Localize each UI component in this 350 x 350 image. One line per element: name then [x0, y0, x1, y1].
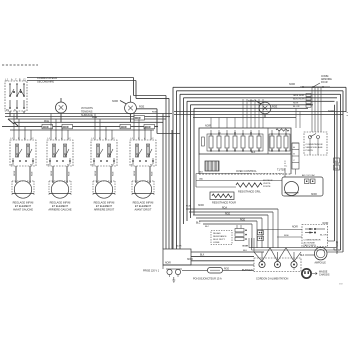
svg-text:RGE: RGE [44, 121, 49, 123]
svg-text:CORDON D ALIMENTATION: CORDON D ALIMENTATION [256, 278, 288, 281]
svg-text:NOIR: NOIR [176, 246, 182, 248]
svg-text:ET ELEMENT: ET ELEMENT [96, 204, 113, 208]
svg-text:NOIR: NOIR [165, 263, 171, 265]
svg-text:GRIS NOIR: GRIS NOIR [293, 95, 305, 97]
svg-text:OVEN CONTROL: OVEN CONTROL [236, 169, 257, 173]
svg-text:BLC: BLC [196, 222, 201, 224]
svg-text:NOIR: NOIR [311, 194, 317, 196]
svg-text:COMMUTATEUR: COMMUTATEUR [304, 239, 321, 242]
svg-text:RESISTANCE FOUR: RESISTANCE FOUR [212, 200, 236, 204]
svg-text:RGE: RGE [225, 213, 230, 215]
svg-text:RGE: RGE [69, 171, 71, 176]
svg-text:NOIR: NOIR [14, 170, 16, 176]
svg-text:NOIR: NOIR [121, 127, 127, 129]
svg-text:CU: CU [218, 133, 222, 135]
svg-text:RGE: RGE [113, 171, 115, 176]
svg-text:RGE: RGE [152, 112, 157, 114]
svg-text:ARMOIRE: ARMOIRE [321, 78, 332, 81]
svg-text:RGE: RGE [152, 171, 154, 176]
svg-text:ROA: ROA [222, 206, 227, 209]
svg-text:W: W [234, 133, 236, 135]
svg-text:AVANT DROIT: AVANT DROIT [134, 207, 151, 211]
svg-text:CC: CC [284, 166, 288, 168]
svg-text:BLK: BLK [300, 255, 305, 257]
svg-text:T1/T30: T1/T30 [277, 169, 285, 172]
svg-text:NOIR: NOIR [135, 118, 141, 120]
svg-text:PORTE: PORTE [306, 150, 314, 152]
svg-text:GO: GO [335, 168, 339, 170]
svg-text:BLK: BLK [251, 152, 256, 154]
svg-text:AVANT GAUCHE: AVANT GAUCHE [13, 207, 33, 211]
svg-text:NOIR: NOIR [205, 125, 211, 128]
svg-text:BL.OR: BL.OR [293, 106, 300, 108]
svg-text:BLC: BLC [205, 226, 210, 228]
svg-text:SELF RUPT.: SELF RUPT. [213, 239, 226, 241]
svg-text:COMM.: COMM. [321, 76, 329, 78]
svg-text:REGLAGE INFINI: REGLAGE INFINI [50, 201, 71, 205]
svg-text:NOIR: NOIR [328, 110, 334, 113]
svg-text:NOIR: NOIR [63, 127, 69, 129]
svg-text:NOIR: NOIR [198, 205, 204, 207]
svg-text:ARRIERE DROIT: ARRIERE DROIT [94, 207, 115, 211]
svg-text:RGE: RGE [32, 171, 34, 176]
svg-text:ROA: ROA [186, 205, 191, 208]
svg-text:CHASSIS: CHASSIS [319, 274, 330, 277]
svg-text:PAR PORTE: PAR PORTE [304, 244, 317, 247]
svg-text:GO: GO [335, 161, 339, 163]
svg-text:NOIR: NOIR [187, 259, 193, 261]
svg-text:BLK: BLK [243, 250, 248, 252]
svg-text:RGE: RGE [224, 268, 229, 270]
svg-text:ET ELEMENT: ET ELEMENT [15, 204, 32, 208]
svg-text:NOIR: NOIR [43, 127, 49, 129]
svg-text:RGE: RGE [284, 235, 289, 237]
svg-text:COMMUTATEUR: COMMUTATEUR [37, 76, 57, 80]
svg-text:POI-DISJONCTEUR 15 A: POI-DISJONCTEUR 15 A [193, 278, 222, 281]
svg-text:NOIR: NOIR [51, 170, 53, 176]
svg-text:RESISTANCE GRIL: RESISTANCE GRIL [238, 190, 261, 194]
svg-text:PORTE: PORTE [263, 186, 271, 188]
svg-text:REGLAGE INFINI: REGLAGE INFINI [13, 201, 34, 205]
svg-text:ARRIERE GAUCHE: ARRIERE GAUCHE [48, 207, 72, 211]
svg-text:VENTIL.: VENTIL. [263, 183, 272, 185]
svg-text:REGLAGE INFINI: REGLAGE INFINI [133, 201, 154, 205]
svg-text:BURNER: BURNER [242, 269, 253, 272]
svg-text:W: W [250, 133, 252, 135]
svg-text:LIGNE: LIGNE [213, 242, 220, 244]
svg-text:NOIR: NOIR [292, 227, 298, 229]
svg-text:BLEU NOIR: BLEU NOIR [293, 99, 305, 101]
svg-text:AMPOULE: AMPOULE [315, 262, 327, 265]
svg-text:NOIR: NOIR [293, 102, 299, 104]
svg-text:NOIR: NOIR [289, 83, 295, 86]
svg-text:PRISE 120 V 1: PRISE 120 V 1 [143, 270, 160, 273]
svg-text:ET ELEMENT: ET ELEMENT [135, 204, 152, 208]
svg-text:NOIR: NOIR [95, 170, 97, 176]
svg-text:RGE: RGE [240, 219, 245, 221]
svg-text:JAU: JAU [199, 178, 204, 181]
svg-text:NOIR: NOIR [112, 100, 118, 103]
svg-text:REGLAGE INFINI: REGLAGE INFINI [94, 201, 115, 205]
svg-text:NOIR: NOIR [243, 246, 249, 248]
svg-text:AR COCO AC: AR COCO AC [302, 174, 316, 177]
svg-text:ACTIONNE: ACTIONNE [304, 242, 316, 245]
svg-text:BLK: BLK [200, 255, 205, 257]
svg-text:NOIR: NOIR [145, 127, 151, 129]
svg-text:RELAIS: RELAIS [213, 232, 221, 235]
svg-text:ET ELEMENT: ET ELEMENT [52, 204, 69, 208]
svg-text:BL.OR: BL.OR [320, 234, 327, 236]
svg-text:BLK: BLK [199, 172, 204, 174]
svg-text:VERROUILLAGE: VERROUILLAGE [306, 146, 324, 149]
svg-text:RGE: RGE [139, 106, 145, 109]
svg-text:NOIR: NOIR [134, 170, 136, 176]
svg-text:FOUR: FOUR [321, 82, 328, 84]
svg-text:COMMUTATEUR: COMMUTATEUR [306, 143, 323, 146]
svg-text:RESISTANCE: RESISTANCE [213, 235, 227, 238]
svg-text:NOIR: NOIR [323, 223, 329, 225]
